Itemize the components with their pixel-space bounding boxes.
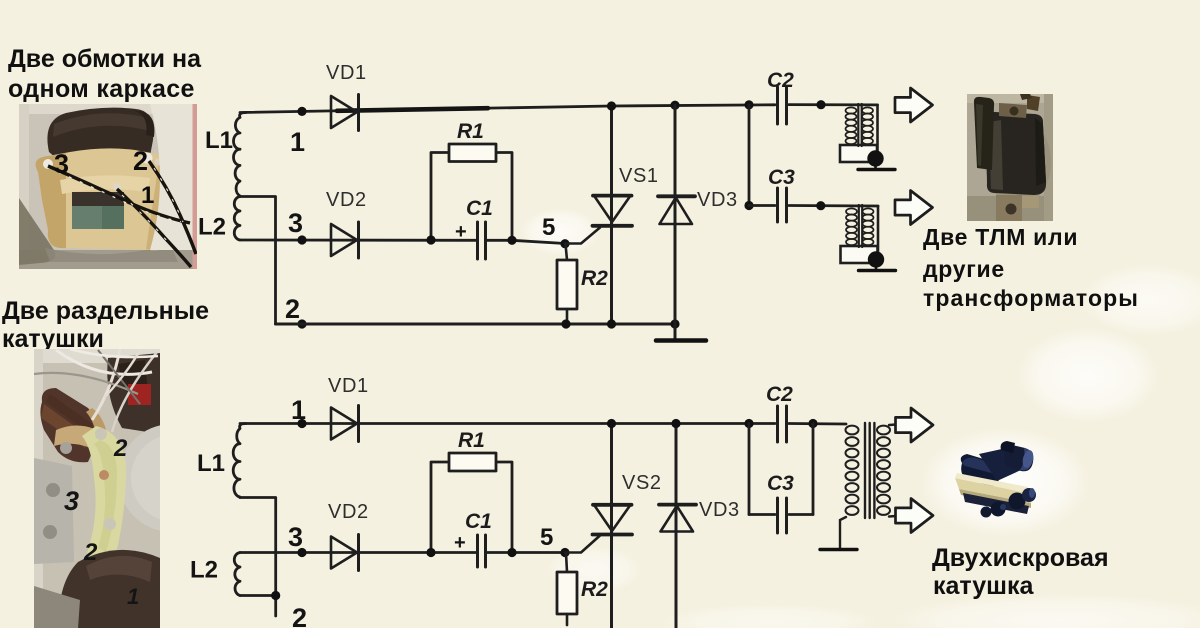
svg-text:3: 3	[288, 208, 303, 238]
photo1 right red strip	[193, 104, 198, 269]
inductor L1 bottom circuit	[233, 424, 246, 498]
wire: T1 secondary top lead	[876, 105, 879, 152]
thyristor VS1	[593, 196, 633, 226]
photo2 terminals	[95, 428, 107, 440]
arrow to T3 top output	[896, 408, 934, 442]
node 3	[297, 235, 306, 244]
resistor R2	[557, 260, 577, 309]
svg-text:+: +	[455, 221, 467, 243]
resistor R1 bottom	[449, 453, 496, 471]
svg-text:2: 2	[83, 539, 98, 566]
resistor R1 bottom loop right	[496, 462, 512, 553]
node VD3 top	[670, 101, 679, 110]
node C2 right bottom	[808, 419, 817, 428]
diode VD3	[658, 196, 695, 224]
svg-text:1: 1	[141, 182, 154, 209]
capacitor C2 bottom	[778, 406, 787, 442]
photo1 bobbin window	[72, 192, 124, 229]
svg-text:другие: другие	[923, 256, 1005, 282]
node VS2 top	[607, 419, 616, 428]
photo2 red element	[128, 384, 151, 405]
T2 HV terminal	[868, 251, 884, 267]
node 5 bottom	[560, 548, 569, 557]
svg-text:VD1: VD1	[326, 62, 367, 84]
wire: VS2 anode-cathode vertical	[610, 424, 613, 628]
wire: L1 bottom to junction vertical	[240, 498, 276, 617]
wire: node5 to R2 bottom circuit	[566, 553, 567, 572]
svg-text:3: 3	[64, 486, 79, 516]
T1 HV terminal	[867, 150, 883, 166]
photo2 dark bottom mass	[58, 550, 160, 628]
diode VD1	[331, 95, 359, 131]
photo2 brown coil upper left	[40, 388, 96, 462]
resistor R1 loop right wire	[496, 153, 512, 241]
white background patch near R2 bottom	[546, 546, 642, 594]
node C2 left	[744, 100, 753, 109]
photo3 left tower	[974, 97, 994, 170]
node 1 bottom	[297, 419, 306, 428]
svg-text:5: 5	[542, 214, 555, 241]
wire: C3 row right segment	[789, 513, 813, 516]
node 3 bottom	[297, 548, 306, 557]
wire: bottom circuit top rail row1	[240, 422, 775, 425]
photo1 light right area	[150, 104, 193, 250]
photo1 tan bobbin	[36, 148, 182, 250]
photo1 wire from terminal 1	[117, 189, 191, 267]
photo1 wire from terminal 3	[48, 166, 190, 223]
wire: T3 secondary bottom to arrow	[889, 515, 896, 518]
node R1C1 right bottom	[507, 548, 516, 557]
wire: row3 from C1 right plate to node 5	[487, 240, 566, 243]
T1 coil body box	[840, 145, 877, 162]
wire: VD3 bottom branch vertical	[675, 424, 678, 628]
svg-text:L2: L2	[198, 214, 226, 241]
node C2 left bottom	[744, 419, 753, 428]
svg-text:VS2: VS2	[622, 472, 662, 494]
photo4 right barrel	[1004, 445, 1033, 471]
wire: C3 row left segment	[749, 513, 775, 516]
photo3 top connector	[999, 103, 1027, 118]
inductor L2	[234, 197, 240, 241]
svg-text:VD2: VD2	[326, 189, 367, 211]
T2 coil body box	[841, 246, 878, 263]
photo4 knobs	[1009, 493, 1026, 510]
wire: VS1 anode-cathode vertical	[610, 106, 613, 324]
white background patch right of caption	[1080, 264, 1200, 336]
wire: T2 secondary top lead	[877, 206, 880, 253]
wire: thyristor VS1 gate	[565, 228, 600, 244]
capacitor C1 bottom	[478, 535, 486, 567]
svg-text:1: 1	[127, 584, 139, 609]
wire: L2 bottom hook to junction	[240, 594, 276, 597]
diode VD3 bottom	[659, 505, 696, 532]
wire: top rail row1 left part	[240, 106, 611, 113]
photo1 terminal 3 dot	[43, 159, 53, 169]
node C2 right	[816, 100, 825, 109]
photo3 body shadow	[985, 118, 1051, 206]
photo2 dark brown top right blob	[107, 353, 160, 434]
wire: C3 branch vertical	[748, 105, 751, 206]
svg-text:3: 3	[288, 522, 303, 552]
photo1 dark winding top	[47, 108, 153, 158]
capacitor C1	[478, 222, 486, 259]
arrow to T3 bottom output	[896, 499, 934, 533]
T3 core	[865, 423, 874, 518]
node VD3 top bottom circuit	[671, 419, 680, 428]
capacitor C2	[778, 87, 787, 124]
photo3 top right bits	[1027, 95, 1040, 111]
svg-text:VS1: VS1	[619, 165, 659, 187]
diode VD1 bottom	[331, 406, 359, 442]
inductor L2 bottom circuit	[234, 553, 240, 596]
photo1 terminal 1 dot	[113, 183, 121, 191]
photo: double spark coil (bottom right)	[955, 441, 1036, 518]
wire: C3 row right to transformer T2	[789, 204, 878, 207]
wire: top rail row1 to transformer T1	[789, 103, 878, 106]
ground T1	[858, 168, 895, 171]
photo1 wire from terminal 2	[149, 161, 196, 254]
white background patch bottom middle	[660, 604, 880, 628]
photo4 under base dark strip	[963, 493, 1029, 514]
node VS1 top	[607, 101, 616, 110]
transformer T2	[841, 205, 896, 271]
wire: winding tap from L1/L2 junction	[240, 197, 276, 325]
svg-text:1: 1	[291, 395, 306, 425]
diode VD2 bottom	[331, 535, 359, 571]
node L2 bottom junction	[271, 591, 280, 600]
node R1C1 left	[426, 235, 435, 244]
arrow to T2 output	[895, 191, 933, 225]
T2 core	[858, 205, 860, 247]
transformer T3 big ignition coil	[820, 423, 896, 550]
wire: row3 from L2 to C1 left plate	[240, 239, 476, 242]
node 5	[560, 239, 569, 248]
svg-text:L1: L1	[205, 127, 233, 154]
photo4 base plate	[955, 478, 1031, 503]
wire: C3 loop right vertical	[812, 424, 815, 515]
svg-text:2: 2	[292, 603, 307, 628]
svg-text:VD2: VD2	[328, 501, 369, 523]
svg-text:трансформаторы: трансформаторы	[923, 285, 1139, 311]
wire: C3 loop left vertical	[748, 424, 751, 515]
wire: R2 bottom stub	[566, 614, 569, 625]
node 1	[297, 107, 306, 116]
node R2 bottom	[561, 319, 570, 328]
svg-text:C3: C3	[768, 166, 795, 189]
resistor R1	[449, 144, 496, 162]
white background patch behind blue coil	[920, 427, 1090, 537]
white background patch right middle	[1016, 327, 1160, 423]
photo1 bottom strip	[19, 250, 197, 269]
node VD3 bottom	[670, 319, 679, 328]
wire: row1 from C2 to transformer	[789, 422, 846, 425]
photo: bobbin with two windings (top left)	[19, 104, 197, 269]
diode VD2	[331, 222, 359, 258]
resistor R2 bottom	[557, 572, 577, 614]
svg-text:катушка: катушка	[933, 572, 1035, 600]
node R1C1 left bottom	[426, 548, 435, 557]
inductor L1	[234, 113, 247, 197]
svg-text:3: 3	[54, 149, 69, 179]
svg-text:R1: R1	[457, 120, 484, 143]
svg-text:5: 5	[540, 524, 553, 551]
T3 primary winding	[846, 426, 859, 515]
wire: R2 to row2	[566, 309, 569, 324]
svg-text:+: +	[454, 532, 466, 554]
white background patch near node 5 top	[520, 208, 600, 256]
wire: row3 C1 right to node5 bottom	[487, 551, 566, 554]
node C3 left	[744, 201, 753, 210]
wire: top rail row1 right part	[611, 105, 775, 106]
resistor R1 loop left wire	[431, 153, 449, 241]
photo3 bottom bracket	[996, 195, 1022, 221]
white background patch bottom right	[890, 594, 1200, 628]
svg-text:C1: C1	[466, 197, 493, 220]
T1 primary and secondary windings	[846, 107, 874, 144]
ground under VD3	[656, 338, 706, 343]
svg-text:2: 2	[113, 435, 128, 462]
T1 core	[857, 104, 859, 146]
photo1 shadow lower left	[19, 198, 55, 265]
svg-text:C3: C3	[767, 472, 794, 495]
photo2 big grey dome right	[118, 424, 226, 532]
photo2 white wires top	[56, 350, 152, 374]
node R1C1 right	[507, 236, 516, 245]
wire: bold segment after VD1	[337, 108, 488, 111]
ground T3	[820, 548, 857, 551]
svg-text:VD3: VD3	[697, 189, 738, 211]
svg-text:C1: C1	[465, 510, 492, 533]
svg-text:2: 2	[133, 146, 148, 176]
node 2	[297, 319, 306, 328]
wire: T3 primary bottom to ground	[840, 517, 846, 548]
resistor R1 bottom loop left	[431, 462, 449, 553]
svg-text:1: 1	[290, 127, 305, 157]
svg-text:C2: C2	[767, 69, 794, 92]
svg-text:R2: R2	[581, 578, 608, 601]
photo: two separate coils magneto (bottom left)	[34, 349, 226, 628]
wire: T3 secondary top to arrow	[889, 423, 896, 426]
photo4 mid body	[979, 447, 1021, 481]
svg-text:катушки: катушки	[2, 325, 104, 353]
svg-text:R2: R2	[581, 267, 608, 290]
wire: node5 to R2	[566, 244, 568, 260]
wire: VS2 gate	[565, 536, 600, 553]
photo1 terminal 2 dot	[142, 153, 153, 164]
svg-text:одном каркасе: одном каркасе	[8, 75, 195, 103]
svg-text:VD3: VD3	[699, 499, 740, 521]
capacitor C3 bottom	[778, 498, 787, 533]
thyristor VS2	[593, 505, 633, 535]
wire: bottom rail row2	[276, 323, 676, 326]
transformer T1	[840, 104, 895, 170]
svg-text:R1: R1	[458, 429, 485, 452]
capacitor C3	[778, 188, 787, 222]
photo1 shadow under bobbin	[45, 244, 178, 262]
photo3 coil main body	[986, 112, 1046, 195]
node VS1 bottom	[607, 319, 616, 328]
photo4 top knob	[1001, 441, 1015, 453]
svg-text:L1: L1	[197, 450, 225, 477]
svg-text:Двухискровая: Двухискровая	[932, 544, 1109, 572]
svg-text:C2: C2	[766, 383, 793, 406]
photo2 yellow crescent board	[82, 426, 126, 574]
svg-text:2: 2	[285, 294, 300, 324]
node C3 right	[816, 201, 825, 210]
wire: C3 row left	[749, 204, 775, 207]
photo4 left arm barrel	[961, 454, 1002, 487]
photo: TLM ignition coil (top right)	[967, 90, 1053, 221]
svg-text:VD1: VD1	[328, 375, 369, 397]
T3 secondary winding	[877, 426, 890, 515]
wire: VD3 branch vertical	[674, 105, 677, 338]
photo2 tan strap	[54, 426, 110, 459]
svg-text:L2: L2	[190, 557, 218, 584]
svg-text:Две раздельные: Две раздельные	[2, 297, 209, 325]
svg-text:Две обмотки на: Две обмотки на	[8, 45, 202, 73]
ground T2	[859, 269, 896, 272]
T2 primary and secondary windings	[846, 208, 874, 245]
arrow to T1 output	[895, 88, 933, 122]
wire: L2 top to row3	[240, 551, 476, 554]
photo2 grey metal left	[34, 458, 74, 564]
svg-text:Две ТЛМ или: Две ТЛМ или	[923, 224, 1078, 250]
